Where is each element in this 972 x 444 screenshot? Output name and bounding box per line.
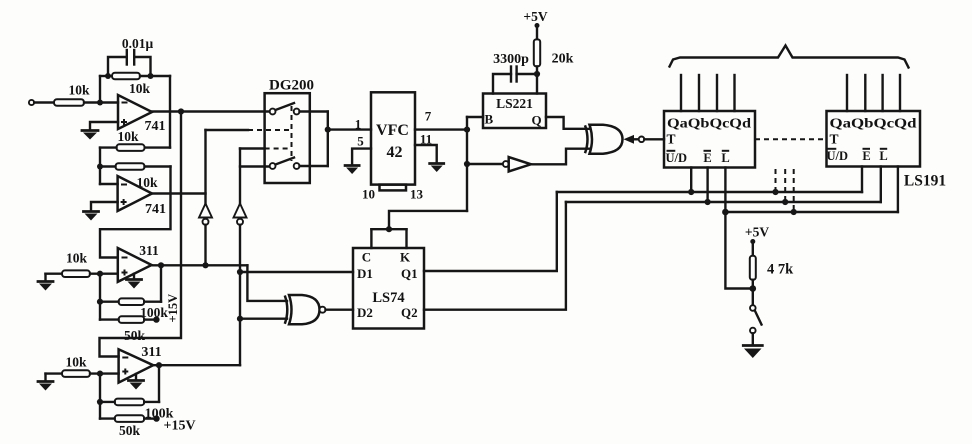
node A junction dot	[97, 100, 103, 106]
wire D1 input	[237, 269, 353, 275]
switch S2 bottom	[270, 158, 300, 169]
wire R2 right to net	[105, 73, 170, 79]
label LS191	[904, 173, 946, 190]
pin 5 wire and label	[352, 134, 371, 165]
ground G3 at VFC pin 5	[345, 166, 359, 175]
svg-text:Q: Q	[532, 113, 542, 128]
svg-text:50k: 50k	[124, 328, 146, 343]
svg-text:T: T	[666, 132, 675, 147]
ground G7 at R9	[38, 374, 62, 391]
svg-text:DG200: DG200	[269, 78, 314, 94]
counter U9 LS191 second	[827, 111, 921, 167]
wire Q output to gate	[546, 117, 590, 129]
svg-text:7: 7	[425, 109, 432, 124]
wires U8 control pins down	[691, 168, 725, 213]
wire feedback net down to stage2	[145, 76, 171, 148]
svg-text:Q1: Q1	[401, 266, 418, 281]
xor gate U11 lower	[285, 295, 326, 324]
wire Q2 to E line	[424, 202, 566, 310]
brace over counters	[670, 46, 909, 68]
ground G9 at S3	[743, 346, 762, 359]
svg-text:741: 741	[145, 202, 166, 217]
connector arrow A2	[234, 204, 247, 225]
converter U4 VFC42	[371, 92, 415, 184]
wire to LS221 B input	[467, 116, 483, 118]
resistor R3 10k	[117, 129, 145, 151]
wire control line E	[566, 199, 881, 205]
resistor R2 10k feedback	[112, 73, 150, 96]
capacitor C2 3300p	[493, 52, 529, 94]
wire control net 2 to DG200	[240, 149, 292, 204]
switch S3	[750, 289, 762, 345]
comparator U12 311	[118, 243, 159, 282]
wire U12 output	[152, 262, 248, 268]
svg-text:LS74: LS74	[372, 290, 404, 306]
wires U9 outputs Qa-Qd up	[847, 75, 900, 111]
svg-text:311: 311	[141, 345, 161, 360]
power +15V rotated label	[166, 294, 180, 323]
svg-text:11: 11	[420, 132, 432, 147]
analog switch U3 DG200	[265, 78, 314, 184]
svg-text:10k: 10k	[117, 129, 139, 144]
inverter U5	[467, 157, 531, 172]
wire A2 bus down to 311#2 output	[239, 225, 241, 365]
wire U13 output to A2 bus	[153, 362, 240, 368]
wire A2 bus to U11 lower input	[237, 316, 287, 322]
VFC bottom tab pins 10 13	[362, 185, 424, 202]
arrowhead into counter T	[624, 135, 665, 144]
resistor R6 10k	[62, 251, 90, 278]
comparator U13 311	[119, 345, 162, 383]
svg-text:+15V: +15V	[164, 419, 196, 434]
ground G6 below U12	[127, 274, 142, 289]
svg-text:50k: 50k	[119, 423, 141, 438]
svg-text:42: 42	[387, 144, 403, 161]
svg-text:Q2: Q2	[401, 305, 418, 320]
svg-text:741: 741	[145, 119, 166, 134]
wire pin7 net vertical	[464, 117, 470, 211]
wire node A up to feedback	[100, 76, 112, 103]
wires U8 outputs Qa-Qd up	[681, 75, 735, 111]
svg-text:+5V: +5V	[523, 9, 547, 24]
resistor R8 50k	[100, 316, 160, 343]
wire switch outputs to VFC pin 1	[300, 112, 372, 167]
dashed expansion stubs	[776, 169, 794, 212]
svg-text:10: 10	[362, 187, 375, 202]
wire Q1 to U/D line	[424, 192, 557, 271]
input terminal J1	[29, 100, 54, 105]
svg-text:10k: 10k	[68, 83, 90, 98]
svg-text:L: L	[879, 149, 887, 163]
svg-text:U/D: U/D	[666, 151, 688, 165]
dashed ripple wire U8 to U9	[755, 138, 827, 140]
svg-text:T: T	[829, 132, 838, 147]
resistor R12 4.7k	[750, 256, 794, 280]
ground G1 at U1 + input	[82, 122, 118, 140]
U9 U/D label	[827, 149, 849, 163]
svg-text:10k: 10k	[65, 355, 87, 370]
capacitor C1 0.01u	[108, 36, 153, 76]
U9 L label	[879, 149, 887, 163]
ground G4 at VFC pin 11	[430, 164, 444, 173]
xor gate U7	[585, 125, 623, 154]
svg-text:1: 1	[355, 117, 362, 132]
wire U1 output bus down-left to 311#2 inverting input	[100, 112, 182, 357]
svg-text:C: C	[362, 250, 371, 265]
wire control line U/D	[557, 189, 862, 195]
resistor R9 10k	[62, 355, 90, 377]
wire R12 to switch node	[750, 280, 757, 292]
svg-text:10k: 10k	[66, 251, 88, 266]
svg-text:13: 13	[410, 187, 424, 202]
svg-text:+5V: +5V	[745, 225, 769, 240]
wire A1 down to 311#1 output	[204, 225, 206, 265]
svg-text:LS221: LS221	[496, 96, 533, 111]
wire R9 to 311#2 + input	[90, 371, 119, 377]
counter U8 LS191 first	[664, 111, 755, 168]
ground G2 at U2 + input	[84, 202, 118, 221]
svg-text:20k: 20k	[552, 52, 574, 67]
svg-text:311: 311	[139, 243, 159, 258]
dashed switch linkage	[291, 106, 293, 161]
resistor R11 50k	[100, 415, 160, 438]
wire + node down	[97, 274, 103, 320]
svg-text:D2: D2	[357, 305, 373, 320]
wires U9 control pins down	[862, 167, 898, 213]
svg-text:U/D: U/D	[827, 149, 849, 163]
monostable U6 LS221	[483, 94, 546, 129]
wire pin7 net to LS74 clock	[371, 211, 467, 248]
ground G5 at R6	[38, 274, 62, 291]
wire control net 1 to DG200	[206, 130, 292, 204]
pin 11 wire and label	[415, 132, 437, 163]
U8 E label	[703, 151, 711, 165]
pin 7 wire and label	[415, 109, 470, 133]
U8 L label	[721, 151, 729, 165]
svg-text:3300p: 3300p	[493, 52, 529, 67]
wire R4 net to 311#1 inverting input	[100, 167, 171, 258]
svg-text:+15V: +15V	[166, 294, 180, 323]
svg-text:0.01μ: 0.01μ	[122, 36, 154, 51]
svg-text:QaQbQcQd: QaQbQcQd	[830, 116, 918, 131]
resistor R1 10k	[54, 83, 90, 106]
svg-text:D1: D1	[357, 266, 373, 281]
op-amp U1 741	[118, 95, 166, 134]
wire U1 output to DG200	[152, 110, 270, 112]
svg-text:4 7k: 4 7k	[767, 262, 794, 278]
power +5V terminal T2	[745, 225, 769, 256]
wire inverter out to gate	[531, 149, 590, 165]
resistor R7 100k	[100, 265, 168, 320]
switch S1 top	[270, 103, 300, 114]
svg-text:B: B	[485, 112, 494, 127]
svg-text:E: E	[862, 149, 870, 163]
wire U11 output to D2	[326, 309, 354, 311]
svg-text:5: 5	[357, 134, 364, 149]
svg-text:E: E	[703, 151, 711, 165]
svg-text:K: K	[400, 250, 411, 265]
svg-text:10k: 10k	[129, 81, 151, 96]
wire R6 to 311#1 + input	[90, 271, 118, 277]
pin 1 label	[355, 117, 362, 132]
ground G8 below U13	[129, 374, 144, 390]
flip-flop U10 LS74	[353, 248, 424, 329]
resistor R5 20k	[534, 39, 574, 66]
svg-text:QaQbQcQd: QaQbQcQd	[667, 116, 752, 131]
wire R3 to U2 input node	[97, 148, 117, 184]
wire + node down stage2	[97, 374, 103, 419]
wire U2 output	[152, 192, 206, 194]
svg-text:LS191: LS191	[904, 173, 946, 190]
resistor R4 10k feedback	[100, 163, 171, 190]
op-amp U2 741	[118, 176, 166, 217]
U8 U/D label	[666, 151, 688, 165]
wire to U2 inverting input	[100, 183, 118, 185]
svg-text:VFC: VFC	[376, 122, 409, 139]
wire L line down to pull-up	[725, 212, 752, 289]
power +5V terminal T1	[523, 9, 547, 39]
connector arrow A1	[199, 204, 212, 225]
wire R5 bottom junction	[517, 66, 541, 93]
wire control line L	[722, 209, 898, 216]
wire R1 to U1 inverting input	[84, 101, 118, 103]
U9 E label	[862, 149, 870, 163]
resistor R10 100k	[100, 365, 174, 421]
wire 311#1 output to U11 upper input	[247, 265, 287, 301]
node U1 output junction	[178, 108, 184, 114]
svg-text:L: L	[721, 151, 729, 165]
power +15V label stage2	[164, 419, 196, 434]
